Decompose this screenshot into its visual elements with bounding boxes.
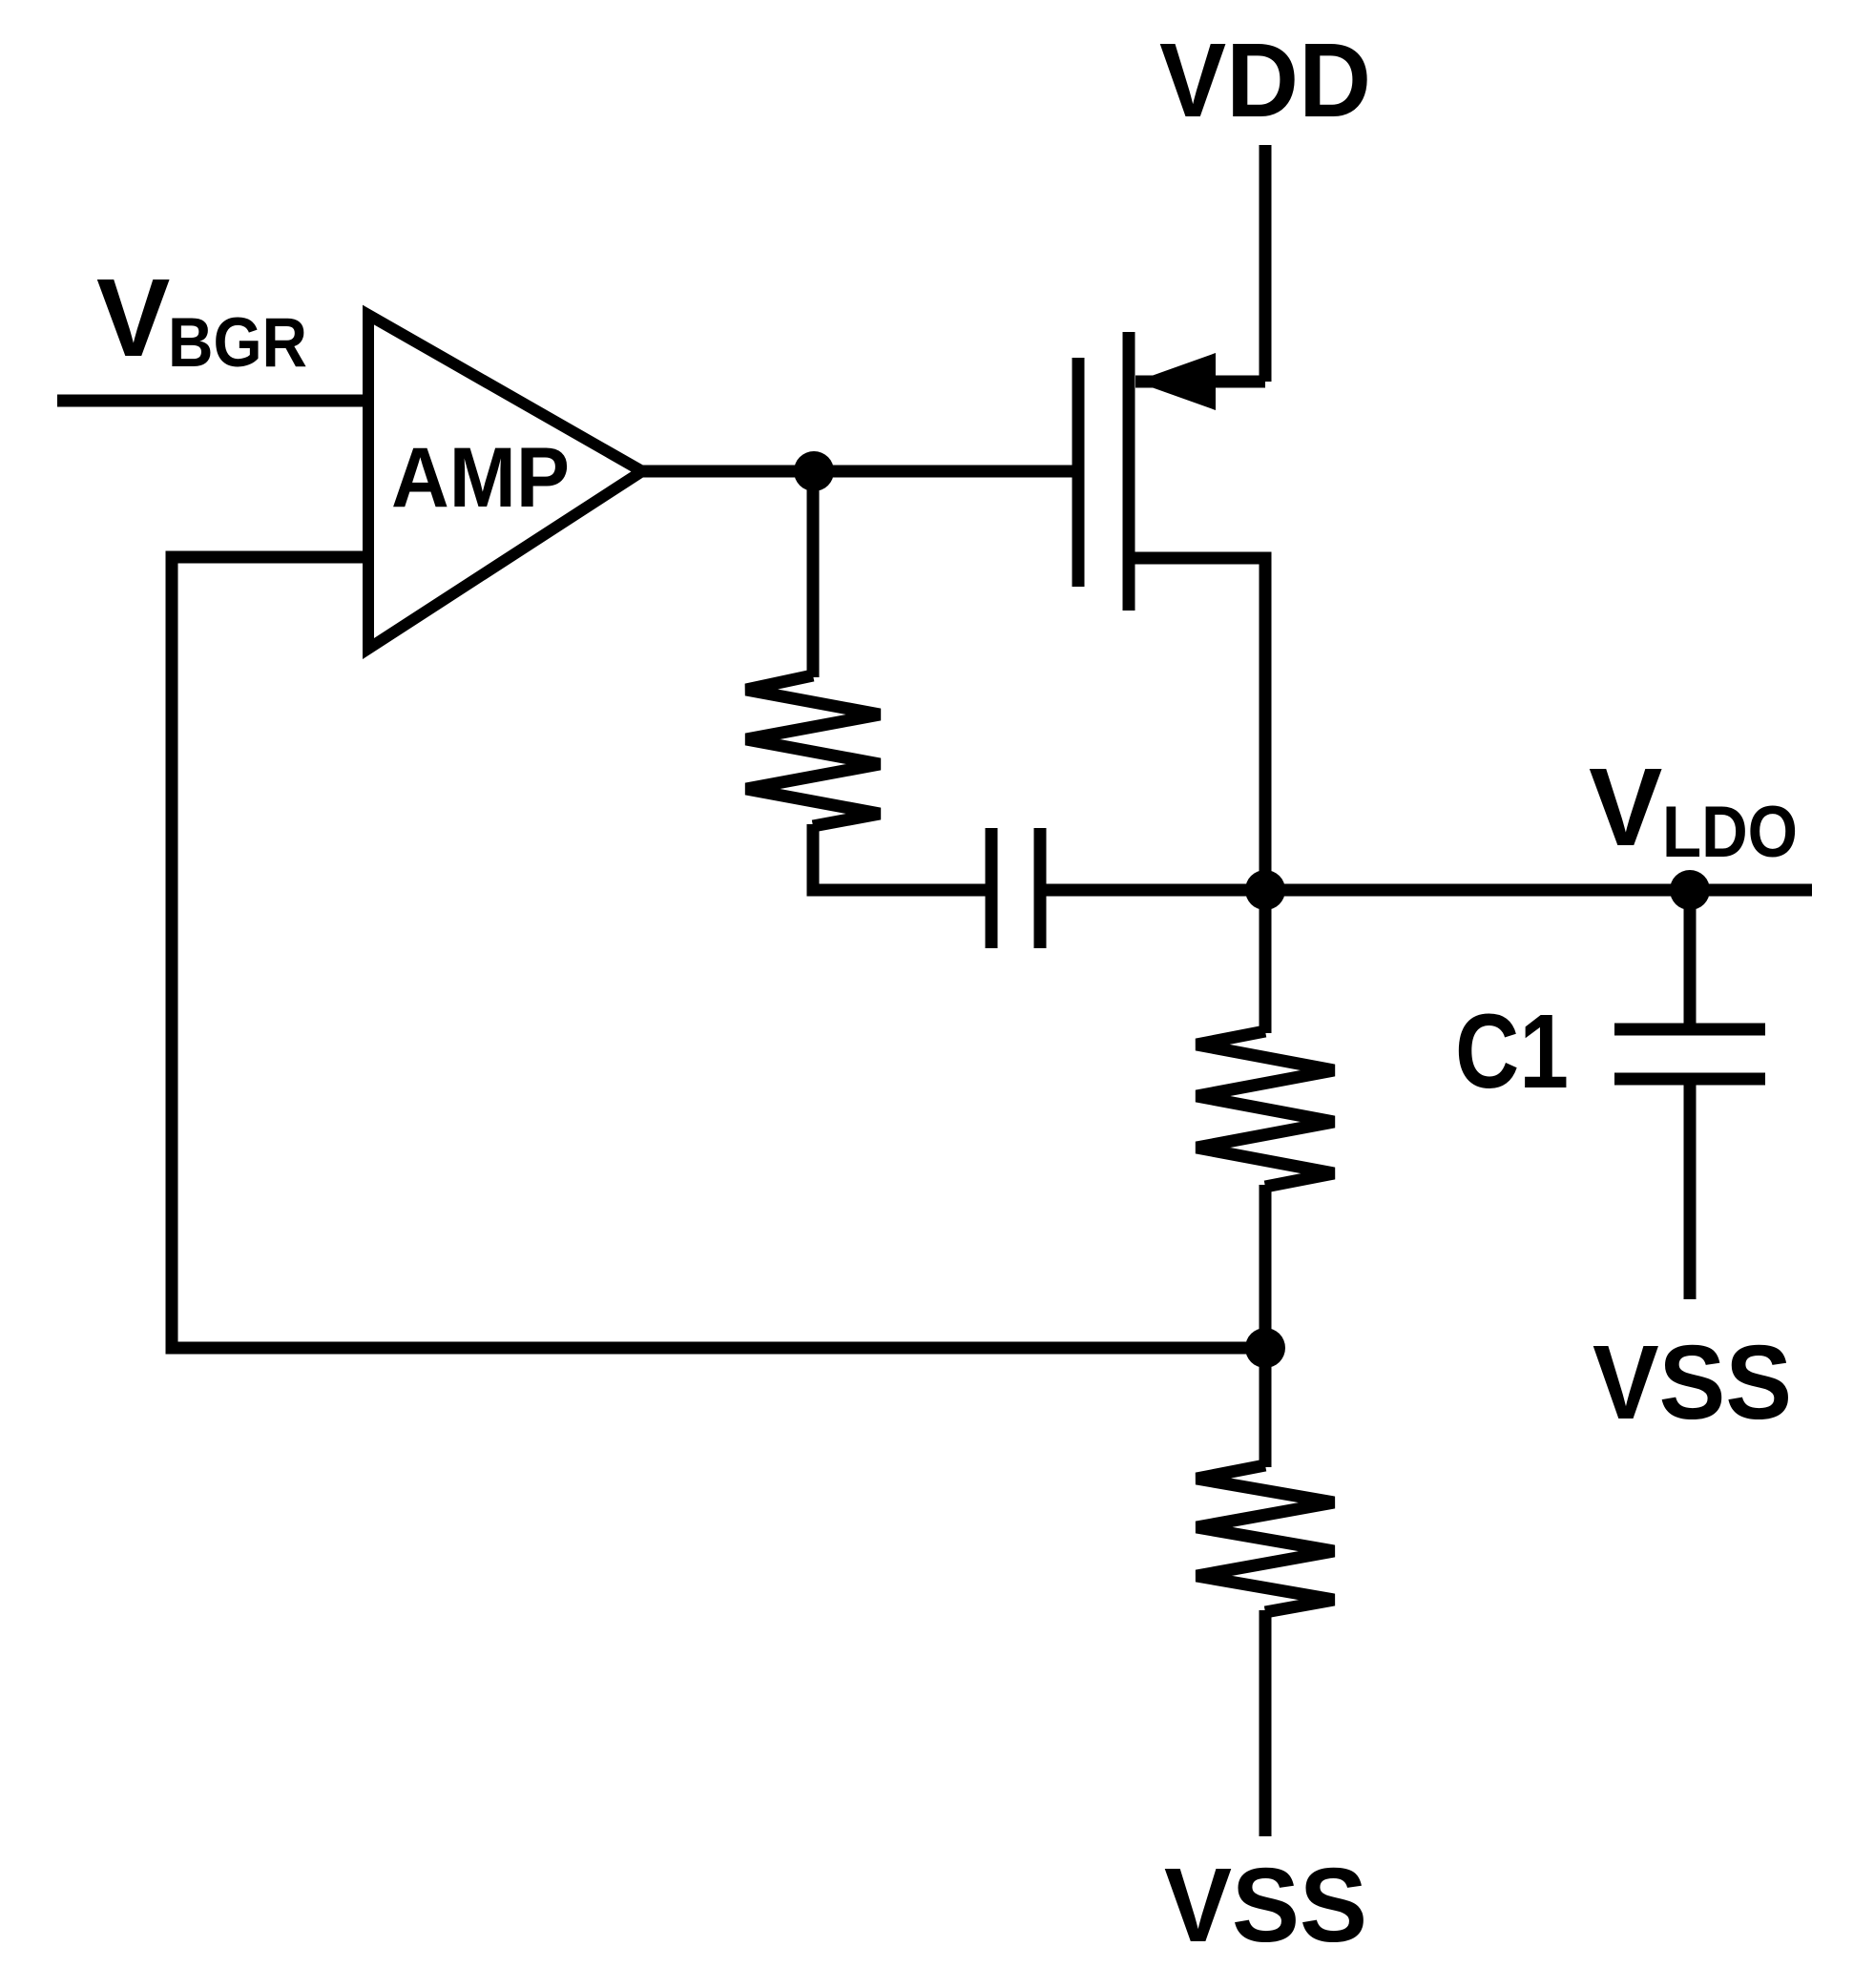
wire node B down to R3 xyxy=(1260,1348,1272,1467)
node VLDO junction dot xyxy=(1245,870,1285,910)
transistor Q1 drain wire down to VLDO node xyxy=(1129,558,1265,890)
capacitor C1 top lead xyxy=(1684,890,1697,1024)
capacitor C1 top plate xyxy=(1614,1024,1765,1036)
capacitor C1 bottom plate xyxy=(1614,1073,1765,1086)
wire R3 to VSS xyxy=(1260,1610,1272,1836)
wire R2 to node B xyxy=(1260,1185,1272,1348)
svg-text:BGR: BGR xyxy=(168,304,307,382)
svg-text:VSS: VSS xyxy=(1593,1324,1792,1441)
wire VDD down to source xyxy=(1260,145,1272,382)
op-amp U1 triangle xyxy=(368,315,642,649)
wire R1 to cap left plate xyxy=(813,824,986,890)
node A junction dot xyxy=(794,451,834,491)
capacitor C2 right plate xyxy=(1034,828,1047,948)
wire VLDO node down to R2 xyxy=(1260,890,1272,1033)
capacitor C2 left plate xyxy=(986,828,998,948)
svg-text:LDO: LDO xyxy=(1662,792,1798,873)
resistor R3 xyxy=(1197,1465,1334,1612)
transistor Q1 gate bar xyxy=(1072,358,1085,587)
svg-text:V: V xyxy=(96,256,170,380)
resistor R1 xyxy=(746,675,880,826)
transistor Q1 channel bar xyxy=(1123,332,1135,611)
wire amp output to gate xyxy=(642,466,1072,478)
transistor Q1 source wire xyxy=(1135,376,1265,388)
node VBGR input wire xyxy=(57,395,368,407)
resistor R2 xyxy=(1197,1031,1334,1187)
svg-text:V: V xyxy=(1589,745,1662,869)
transistor Q1 source arrow xyxy=(1135,353,1216,410)
wire VLDO rail xyxy=(1265,884,1812,897)
wire cap to node VLDO rail xyxy=(1046,884,1265,897)
node VLDO output junction dot xyxy=(1670,870,1710,910)
svg-text:VDD: VDD xyxy=(1159,22,1371,139)
capacitor C1 bottom lead to VSS xyxy=(1684,1085,1697,1299)
svg-text:AMP: AMP xyxy=(391,429,570,525)
node B feedback junction dot xyxy=(1245,1328,1285,1368)
wire node A down to R1 xyxy=(807,471,820,677)
svg-text:C1: C1 xyxy=(1455,993,1569,1110)
svg-text:VSS: VSS xyxy=(1164,1847,1367,1964)
wire feedback: bottom amp input, left rail, bottom rail to node B xyxy=(172,557,1265,1348)
